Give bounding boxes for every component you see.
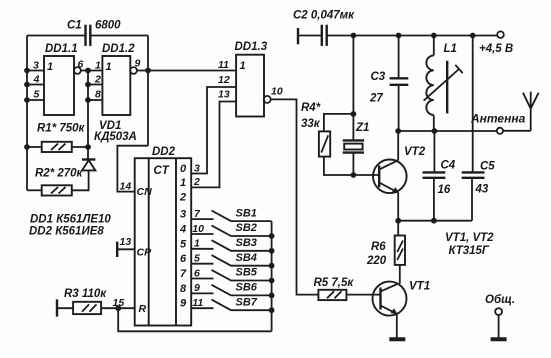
junction: SB2 on bus <box>269 233 275 239</box>
svg-text:VT2: VT2 <box>404 146 426 158</box>
wire: C4 top lead <box>433 131 435 172</box>
pushbutton switch SB3 <box>212 240 272 251</box>
wire: node to R4 top <box>324 114 354 131</box>
wire: C5 bottom lead to emitter node <box>471 178 473 221</box>
svg-text:R5 7,5к: R5 7,5к <box>314 277 355 289</box>
pushbutton switch SB2 <box>212 225 272 236</box>
terminal: antenna output <box>497 128 503 134</box>
wire: DD2 output stub to SB1 <box>191 218 213 220</box>
svg-text:КТ315Г: КТ315Г <box>449 245 490 257</box>
wire: switch common bus <box>271 221 273 331</box>
svg-text:R6: R6 <box>371 241 386 253</box>
terminal: CP input T-bar <box>116 242 118 257</box>
svg-text:6: 6 <box>194 267 200 279</box>
wire: top feedback wire to C1 <box>27 35 85 37</box>
pushbutton switch SB5 <box>212 270 272 281</box>
pushbutton switch SB6 <box>212 285 272 296</box>
svg-text:11: 11 <box>192 297 203 309</box>
wire: R pin 15 stub <box>118 307 135 309</box>
quartz resonator Z1 <box>343 140 364 152</box>
svg-text:+4,5 В: +4,5 В <box>479 43 513 55</box>
wire: pin 5 stub <box>27 99 44 101</box>
svg-text:9: 9 <box>194 282 200 294</box>
junction: collector / C3 node <box>395 128 401 134</box>
svg-text:SB2: SB2 <box>236 222 257 234</box>
wire: DD2 output 0 (pin 3) to DD1.3 pin 12 <box>191 87 236 174</box>
svg-text:33к: 33к <box>301 118 321 130</box>
junction: Z1 bottom / VT2 base node <box>351 172 357 178</box>
wire: common terminal lead <box>498 315 500 338</box>
junction: SB4 on bus <box>269 263 275 269</box>
wire: C4 bottom lead <box>433 178 435 221</box>
op-amp gate DD1.3 (NOR element) <box>236 55 264 117</box>
capacitor C2 <box>322 25 327 46</box>
pushbutton switch SB4 <box>212 255 272 266</box>
DD2 internal column divider left <box>148 158 150 325</box>
svg-text:2: 2 <box>179 192 186 204</box>
ground (common terminal) <box>491 337 507 341</box>
wire: R6 top lead <box>397 221 399 236</box>
wire: antenna terminal to antenna <box>503 130 531 132</box>
svg-text:DD1.1: DD1.1 <box>45 43 78 55</box>
op-amp gate DD1.1 (NOR element) <box>44 56 74 115</box>
svg-text:DD1.3: DD1.3 <box>235 41 268 53</box>
capacitor C4 <box>423 172 446 177</box>
svg-text:Общ.: Общ. <box>485 294 515 306</box>
op-amp gate DD1.2 (NOR element) <box>102 56 130 115</box>
ground (VT1 emitter) <box>389 337 405 341</box>
wire: R3 left stub <box>57 307 73 309</box>
svg-text:9: 9 <box>135 58 141 70</box>
junction: node B at pin 6 / pin 1 <box>85 68 91 74</box>
wire: DD1.1 pin 6 to node B <box>80 70 102 72</box>
junction: pin 4 on rail <box>24 82 30 88</box>
terminal: R3 input T-bar <box>56 299 58 316</box>
svg-text:7: 7 <box>180 268 187 280</box>
wire: L1 top lead <box>433 36 435 56</box>
DD1.1 output inversion bubble <box>74 67 81 74</box>
junction: SB6 on bus <box>269 293 275 299</box>
wire: VT2 collector up to node <box>397 131 399 160</box>
svg-text:220: 220 <box>366 255 387 267</box>
wire: DD2 output stub to SB3 <box>191 248 213 250</box>
svg-text:43: 43 <box>475 184 489 196</box>
svg-text:R4*: R4* <box>301 102 321 114</box>
wire: C2 left stub <box>298 35 321 37</box>
svg-text:1: 1 <box>180 177 186 189</box>
wire: Z1 bottom lead <box>352 153 354 175</box>
svg-text:10: 10 <box>271 86 283 98</box>
wire: right rail down to DD1.2 output node <box>147 36 149 146</box>
svg-text:1: 1 <box>95 60 101 72</box>
svg-text:DD1 К561ЛЕ10: DD1 К561ЛЕ10 <box>30 214 111 226</box>
svg-text:R: R <box>139 303 147 315</box>
counter DD2 (CT decade counter) <box>135 158 192 325</box>
wire: CP pin 13 stub <box>117 248 135 250</box>
svg-text:C1: C1 <box>67 20 82 32</box>
svg-text:1: 1 <box>194 238 200 250</box>
svg-text:1: 1 <box>240 60 246 72</box>
svg-text:CN: CN <box>137 186 153 198</box>
wire: R6 bottom to VT1 collector <box>399 265 401 284</box>
svg-text:SB3: SB3 <box>236 237 257 249</box>
junction: R4/Z1 drop on rail <box>351 33 357 39</box>
terminal: common (Общ.) <box>495 308 502 315</box>
svg-text:Z1: Z1 <box>355 122 369 134</box>
svg-text:R1* 750к: R1* 750к <box>37 123 86 135</box>
wire: pin 3 stub <box>27 70 44 72</box>
svg-text:1: 1 <box>47 61 53 73</box>
junction: pin 3 on rail <box>24 68 30 74</box>
svg-text:КД503А: КД503А <box>94 131 137 143</box>
resistor R4 <box>319 131 330 156</box>
svg-text:6: 6 <box>78 59 84 71</box>
junction: C3 drop on rail <box>396 33 402 39</box>
svg-text:CT: CT <box>154 165 170 177</box>
svg-text:C4: C4 <box>441 160 456 172</box>
wire: DD1.3 output pin 10 down to R5 <box>270 99 318 294</box>
wire: R2 left stub <box>27 189 42 191</box>
capacitor C3 <box>390 78 409 85</box>
wire: jog to DD2 CN pin 14 <box>117 146 148 192</box>
wire: DD2 output stub to SB7 <box>191 307 213 309</box>
wire: DD2 output stub to SB6 <box>191 292 213 294</box>
junction: SB5 on bus <box>269 278 275 284</box>
wire: VT1 emitter down to ground <box>396 314 398 338</box>
wire: pin 2 stub <box>88 84 102 86</box>
wire: node B vertical to R1 and VD1 <box>87 71 89 160</box>
svg-text:2: 2 <box>193 176 200 188</box>
wire: R4 bottom to base node <box>324 157 379 175</box>
wire: DD2 output 1 (pin 2) to DD1.3 pin 13 <box>191 102 236 188</box>
svg-text:13: 13 <box>218 89 230 101</box>
svg-text:9: 9 <box>180 298 187 310</box>
svg-text:3: 3 <box>194 162 200 174</box>
junction: VT2 emitter / R6 <box>395 218 401 224</box>
svg-text:13: 13 <box>120 236 132 248</box>
transistor VT1 <box>373 282 407 316</box>
svg-text:8: 8 <box>95 89 101 101</box>
capacitor C5 <box>462 172 485 177</box>
resistor R2 <box>42 185 72 195</box>
junction: R3 / reset bus node <box>115 305 121 311</box>
svg-text:DD2: DD2 <box>152 146 176 158</box>
junction: C5 drop on rail <box>470 33 476 39</box>
terminal: +4,5 V supply <box>497 31 504 38</box>
junction: R4 top / Z1 top node <box>351 111 357 117</box>
svg-text:SB4: SB4 <box>236 252 257 264</box>
svg-text:R3 110к: R3 110к <box>64 288 107 300</box>
junction: L1 on rail <box>431 33 437 39</box>
junction: pin 5 on rail <box>24 97 30 103</box>
resistor R1 <box>42 142 72 152</box>
junction: R1 right / VD1 cathode node <box>85 144 91 150</box>
wire: pin 11 from DD1.2 output node <box>148 70 236 72</box>
wire: +4.5V supply rail <box>327 35 498 37</box>
wire: VT2 emitter down to emitter node <box>397 193 399 221</box>
wire: R3 right to pin 15 node <box>101 307 118 309</box>
svg-text:VT1, VT2: VT1, VT2 <box>445 232 494 244</box>
wire: collector node to antenna terminal <box>398 130 497 132</box>
svg-text:12: 12 <box>218 74 230 86</box>
wire: R1 left stub <box>27 146 42 148</box>
junction: SB7 on bus <box>269 307 275 313</box>
resistor R6 <box>395 236 405 265</box>
svg-text:VT1: VT1 <box>409 281 430 293</box>
svg-text:R2* 270к: R2* 270к <box>35 168 84 180</box>
wire: DD2 output stub to SB4 <box>191 263 213 265</box>
wire: emitter node <box>398 220 472 222</box>
DD1.3 output inversion bubble <box>264 96 271 103</box>
wire: C1 to right rail <box>90 35 148 37</box>
wire: R1 right stub <box>72 146 88 148</box>
svg-text:SB6: SB6 <box>236 282 258 294</box>
resistor R5 <box>318 290 346 300</box>
transistor VT2 <box>373 160 407 194</box>
wire: reset node down and along bottom to switch bus <box>118 308 271 331</box>
svg-text:1: 1 <box>106 61 112 73</box>
wire: pin 4 stub <box>27 84 44 86</box>
svg-text:C5: C5 <box>480 160 495 172</box>
wire: left rail (node A) <box>26 36 28 191</box>
svg-text:3: 3 <box>180 209 186 221</box>
svg-text:C2 0,047мк: C2 0,047мк <box>293 10 355 22</box>
junction: pin 2 on node B <box>85 82 91 88</box>
svg-text:8: 8 <box>180 283 187 295</box>
svg-text:SB5: SB5 <box>236 267 258 279</box>
svg-text:5: 5 <box>180 238 187 250</box>
junction: C4 on emitter node <box>431 218 437 224</box>
svg-text:6800: 6800 <box>95 20 121 32</box>
svg-text:11: 11 <box>218 59 229 71</box>
wire: rail down to R4/Z1 node <box>352 36 354 141</box>
svg-text:5: 5 <box>194 253 200 265</box>
pushbutton switch SB1 <box>212 211 272 222</box>
wire: pin 8 stub <box>88 99 102 101</box>
junction: R1 left on rail <box>24 144 30 150</box>
junction: pin 9 node on right rail <box>145 68 151 74</box>
svg-text:C3: C3 <box>371 71 386 83</box>
svg-text:6: 6 <box>180 253 187 265</box>
DD2 output digits 0-9 <box>179 163 187 310</box>
antenna symbol <box>523 92 539 131</box>
DD1.2 output inversion bubble <box>130 67 137 74</box>
pushbutton switch SB7 <box>212 300 272 311</box>
junction: L1 bottom node <box>432 128 438 134</box>
wire: L1 bottom to collector wire <box>433 115 435 131</box>
svg-text:14: 14 <box>120 181 132 193</box>
svg-text:DD1.2: DD1.2 <box>102 43 135 55</box>
svg-text:CP: CP <box>137 247 153 259</box>
svg-text:4: 4 <box>179 224 186 236</box>
inductor L1 <box>424 55 463 115</box>
svg-text:SB7: SB7 <box>236 296 258 308</box>
wire: R2 right stub to VD1 anode <box>72 170 89 190</box>
svg-text:5: 5 <box>34 89 40 101</box>
DD2 internal column divider right <box>175 158 177 325</box>
svg-text:0: 0 <box>180 163 187 175</box>
wire: DD1.2 pin 9 to right rail <box>136 70 148 72</box>
svg-text:16: 16 <box>438 184 451 196</box>
wire: C3 bottom to collector node <box>398 85 400 131</box>
wire: rail down to C3 <box>398 36 400 79</box>
svg-text:27: 27 <box>369 93 383 105</box>
wire: DD2 output stub to SB5 <box>191 278 213 280</box>
svg-text:Антенна: Антенна <box>470 112 526 126</box>
svg-text:SB1: SB1 <box>236 207 257 219</box>
wire: rail down to C5 (crosses collector wire) <box>472 36 474 173</box>
diode VD1 <box>82 160 95 171</box>
resistor R3 <box>73 302 101 314</box>
svg-text:L1: L1 <box>444 43 457 55</box>
wire: DD2 output stub to SB2 <box>191 233 213 235</box>
junction: SB3 on bus <box>269 248 275 254</box>
junction: pin 8 on node B <box>85 97 91 103</box>
capacitor C1 <box>86 25 91 46</box>
terminal: C2 input T-bar <box>297 28 299 44</box>
svg-text:DD2 К561ИЕ8: DD2 К561ИЕ8 <box>29 226 104 238</box>
wire: R5 right to VT1 base <box>346 294 380 296</box>
svg-text:10: 10 <box>192 223 204 235</box>
